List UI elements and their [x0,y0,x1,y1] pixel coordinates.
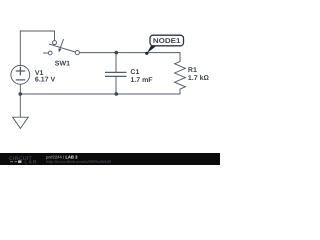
node NODE1 flag box [150,35,184,46]
switch arrow head [58,48,61,52]
svg-text:1.7 kΩ: 1.7 kΩ [188,74,210,82]
svg-text:http://circuitlab.com/c/9995s2: http://circuitlab.com/c/9995s2d643 [46,159,112,164]
svg-text:NODE1: NODE1 [153,38,181,45]
label V1 [35,70,44,77]
wire capacitor bottom stem [115,76,117,94]
label R1 [188,67,197,74]
svg-text:R1: R1 [188,67,197,74]
value 6.17 V [35,77,56,84]
footer CircuitLab logo [9,156,37,166]
switch SW1 [44,40,80,55]
value 1.7 kΩ [188,74,210,82]
voltage source V1 [11,65,30,84]
node NODE1 flag pointer [145,45,157,55]
junction dot at capacitor bottom [115,92,119,96]
footer title line [46,155,78,160]
footer url line [46,159,112,164]
wire top-right: switch to resistor corner [80,52,181,54]
wire top-left: V1 top to switch [20,31,54,65]
footer bar [0,153,220,165]
ground [13,94,29,128]
wire resistor top stem [179,53,181,62]
wire V1 bottom stem [19,85,21,95]
junction dot at capacitor top [115,51,119,55]
svg-text:6.17 V: 6.17 V [35,77,56,84]
svg-text:C1: C1 [130,69,139,76]
svg-text:SW1: SW1 [55,61,70,68]
resistor R1 zigzag [175,62,186,90]
label C1 [130,69,139,76]
svg-text:LAB: LAB [25,160,38,165]
label SW1 [55,61,70,68]
node NODE1 flag text [153,38,181,45]
junction dot at V1 bottom [19,92,23,96]
svg-text:1.7 mF: 1.7 mF [130,77,153,84]
value 1.7 mF [130,77,153,84]
capacitor C1 plates [106,72,126,76]
wire bottom: resistor bottom to V1 bottom [20,89,180,94]
wire capacitor top stem [115,53,117,72]
